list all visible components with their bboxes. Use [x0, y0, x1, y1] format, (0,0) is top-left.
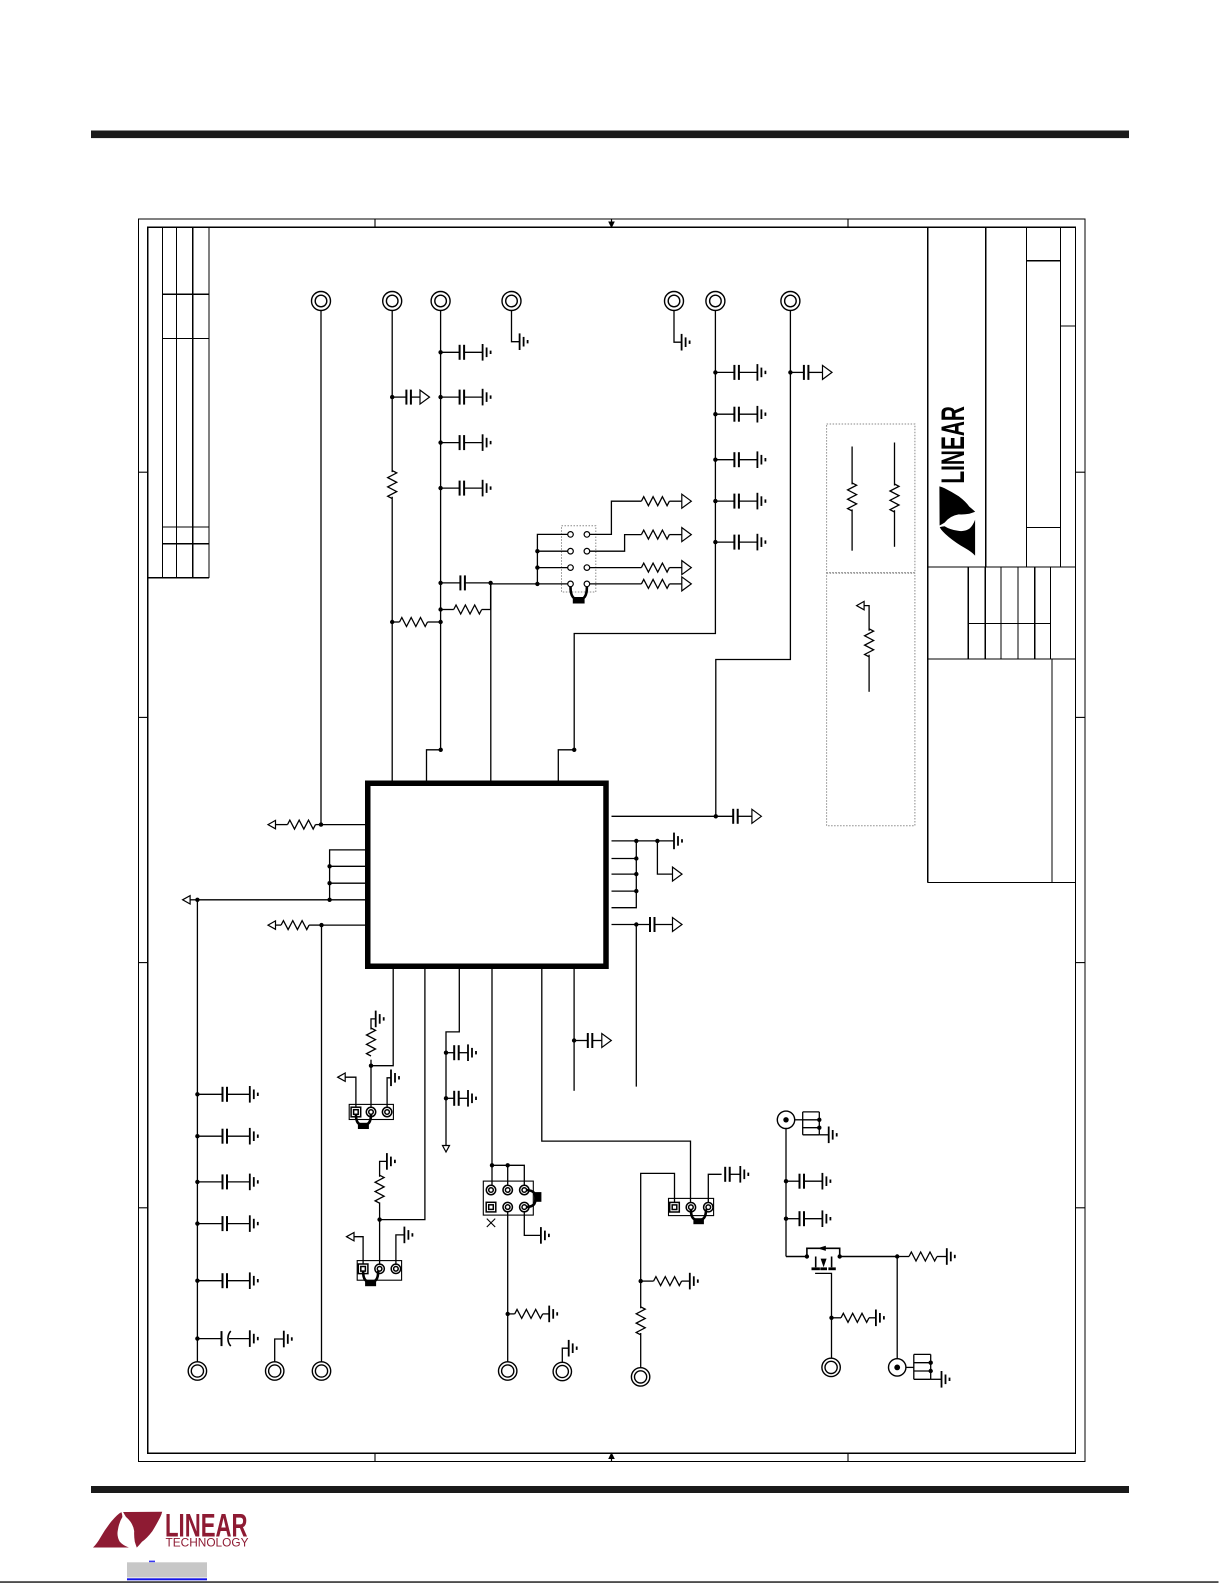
- node: [572, 1038, 576, 1042]
- capacitor C15 to ground: [446, 1052, 468, 1054]
- wire bus E3: [440, 311, 442, 750]
- resistor R10 to ground: [371, 1019, 376, 1066]
- node: [895, 1254, 899, 1258]
- capacitor C21 to ground: [197, 1181, 249, 1183]
- turret E10: [499, 1362, 517, 1380]
- net flag: [268, 921, 276, 929]
- frame tick bottom: [847, 1453, 849, 1461]
- wire JP1 left bus: [491, 534, 568, 584]
- node: [817, 1118, 821, 1122]
- shield stack J2: [914, 1354, 942, 1379]
- shield stack J1: [803, 1112, 829, 1135]
- capacitor C11 to ground: [715, 534, 765, 551]
- node: [535, 565, 539, 569]
- coax connector J1: [777, 1111, 794, 1128]
- wire drain down: [896, 1257, 898, 1359]
- wire bus E2: [391, 311, 393, 783]
- wire JP2 pin1 to flag: [345, 1077, 356, 1107]
- capacitor C19 to ground: [197, 1093, 249, 1095]
- wire J2 to shield: [906, 1366, 914, 1368]
- jumper header JP1 (2x4): [562, 526, 596, 592]
- ground: [876, 1310, 884, 1327]
- wire JP4 top feed: [492, 1165, 524, 1186]
- node: [195, 1180, 199, 1184]
- wire J1 to shield: [795, 1119, 803, 1121]
- node: [195, 1134, 199, 1138]
- frame tick bottom: [374, 1453, 376, 1461]
- resistor R16 to ground: [897, 1256, 947, 1258]
- node: [327, 881, 331, 885]
- frame center arrow bottom: [608, 1452, 615, 1461]
- node: [784, 1217, 788, 1221]
- turret E8: [188, 1362, 206, 1380]
- jumper block JP4 (2x3): [483, 1181, 533, 1215]
- capacitor C5 to ground: [441, 480, 491, 497]
- capacitor C24 polarized to ground: [197, 1338, 249, 1340]
- wire bus E6: [574, 311, 715, 750]
- node: [438, 486, 442, 490]
- resistor R4: [641, 497, 669, 506]
- footer Linear Technology logo: [93, 1508, 249, 1550]
- bottom black bar: [91, 1486, 1129, 1493]
- wire: [669, 583, 682, 585]
- node: [319, 923, 323, 927]
- node: [829, 1316, 833, 1320]
- net arrow: [682, 494, 692, 508]
- capacitor C18 with arrow: [574, 1040, 603, 1042]
- MOSFET Q1: [786, 1248, 897, 1267]
- wire to ground: [636, 840, 674, 842]
- no-connect X: [487, 1219, 495, 1227]
- wire JP1 row3 to R6: [590, 567, 642, 569]
- turret E12: [631, 1368, 649, 1386]
- frame tick top: [847, 219, 849, 227]
- resistor R6: [641, 563, 669, 572]
- node: [327, 864, 331, 868]
- node: [438, 620, 442, 624]
- wire U1 bottom pin x459: [446, 969, 459, 1145]
- net arrow: [682, 577, 692, 591]
- wire U1 bottom pin x542 to JP5: [542, 969, 691, 1203]
- resistor (option) in box2: [865, 629, 874, 657]
- wire bus E1 to U1: [320, 311, 322, 825]
- node: [929, 1369, 933, 1373]
- net arrow: [673, 867, 683, 881]
- wire U1 bottom pin x492 to JP4: [491, 969, 493, 1186]
- IC U1: [368, 783, 606, 966]
- wire: [441, 583, 491, 610]
- wire: [669, 567, 682, 569]
- node: [488, 581, 492, 585]
- node: [319, 822, 323, 826]
- jumper shunt JP2: [356, 1114, 371, 1125]
- schematic sheet frame: [139, 219, 1086, 1462]
- frame tick right: [1075, 962, 1085, 964]
- svg-text:LINEAR: LINEAR: [935, 406, 971, 484]
- node: [390, 620, 394, 624]
- top black bar: [91, 131, 1129, 139]
- dotted option box 1: [827, 424, 915, 573]
- capacitor C7 to ground: [715, 364, 765, 381]
- node: [784, 1179, 788, 1183]
- node: [195, 1092, 199, 1096]
- node: [444, 1096, 448, 1100]
- node: [506, 1163, 510, 1167]
- title block: [928, 227, 1076, 882]
- frame tick left: [139, 471, 148, 473]
- wire gate to turret: [831, 1318, 833, 1359]
- node: [195, 1279, 199, 1283]
- wire E13 to ground: [562, 1348, 568, 1362]
- resistor R3 between buses: [392, 621, 440, 623]
- wire U1 top pin VIN: [490, 583, 492, 781]
- node: [535, 582, 539, 586]
- turret E6: [706, 292, 725, 311]
- net arrow down: [443, 1146, 450, 1153]
- jumper strip JP2: [349, 1104, 393, 1119]
- jumper shunt JP3: [363, 1271, 378, 1282]
- wire JP1 row1 to R4: [590, 501, 642, 534]
- wire U1 top pin step to E3 bus: [427, 750, 441, 781]
- resistor R12 to ground: [508, 1313, 550, 1315]
- capacitor C22 to ground: [197, 1223, 249, 1225]
- capacitor C14 with arrow: [650, 917, 655, 932]
- wire U1 bottom pin x393: [371, 969, 393, 1066]
- wire to JP2 pin2: [370, 1066, 372, 1108]
- resistor R8: [276, 824, 322, 826]
- wire JP3 pin1 to flag: [354, 1237, 363, 1264]
- frame tick right: [1075, 716, 1085, 718]
- turret E7: [781, 292, 800, 311]
- title block Linear logo (rotated): [935, 406, 975, 556]
- svg-text:TECHNOLOGY: TECHNOLOGY: [166, 1535, 249, 1549]
- capacitor C23 to ground: [197, 1280, 249, 1282]
- wire U1 left pin group: [197, 850, 365, 900]
- node: [444, 1051, 448, 1055]
- node: [438, 350, 442, 354]
- wire to arrow: [657, 841, 673, 874]
- net flag arrow (option) in box2: [857, 601, 865, 609]
- node: [438, 395, 442, 399]
- frame tick left: [139, 716, 148, 718]
- footer redacted link: [127, 1562, 207, 1577]
- ground: [569, 1340, 577, 1357]
- ground: [541, 1227, 549, 1244]
- node: [639, 1279, 643, 1283]
- ground: [391, 1070, 399, 1087]
- resistor R5: [641, 530, 669, 539]
- node: [929, 1361, 933, 1365]
- wire: [669, 534, 682, 536]
- node: [634, 856, 638, 860]
- node: [634, 839, 638, 843]
- frame tick left: [139, 1207, 148, 1209]
- ground: [376, 1011, 384, 1028]
- wire bus E7: [716, 311, 791, 817]
- node: [195, 1336, 199, 1340]
- ground: [404, 1227, 412, 1244]
- node: [713, 370, 717, 374]
- node: [369, 1064, 373, 1068]
- capacitor C10 to ground: [715, 493, 765, 510]
- resistor R9: [276, 924, 322, 926]
- node: [713, 412, 717, 416]
- capacitor C4 to ground: [441, 434, 491, 451]
- node: [195, 1221, 199, 1225]
- ground: [387, 1153, 395, 1170]
- node: [439, 748, 443, 752]
- ground: [674, 833, 682, 850]
- ground: [947, 1248, 955, 1265]
- dotted option box 2: [827, 573, 915, 825]
- node: [634, 922, 638, 926]
- capacitor C8 to ground: [715, 406, 765, 423]
- node: [438, 607, 442, 611]
- net flag: [183, 896, 191, 904]
- wire U1 left pin y925: [322, 924, 366, 926]
- node: [714, 814, 718, 818]
- ground: [549, 1306, 557, 1323]
- resistor R1 inline on E2 bus: [388, 471, 397, 499]
- wire JP1 row4 to R7: [590, 583, 642, 585]
- turret E1: [312, 292, 331, 311]
- revision table (top left): [148, 227, 210, 578]
- wire JP4 bottom-mid to turret: [507, 1212, 509, 1362]
- node: [490, 1163, 494, 1167]
- wire JP5 pin1 path: [641, 1173, 675, 1281]
- node: [788, 370, 792, 374]
- turret E9: [266, 1362, 284, 1380]
- wire U1 right pin group: [612, 841, 637, 908]
- frame center arrow top: [608, 219, 615, 228]
- resistor (option) in box1: [894, 443, 896, 547]
- node: [506, 1312, 510, 1316]
- ground: [829, 1127, 837, 1144]
- wire: [190, 899, 197, 901]
- node on E2 bus: [390, 395, 394, 399]
- capacitor C9 to ground: [715, 451, 765, 468]
- jumper strip JP5: [669, 1198, 714, 1215]
- capacitor C20 to ground: [197, 1135, 249, 1137]
- resistor R13 to ground: [641, 1280, 690, 1282]
- node: [634, 872, 638, 876]
- wire U1 right pin y924: [612, 924, 651, 926]
- node: [195, 898, 199, 902]
- wire U1 left pin y824: [321, 824, 365, 826]
- wire U1 top pin step: [558, 750, 574, 781]
- resistor R14 series: [640, 1281, 642, 1368]
- turret E2: [383, 292, 402, 311]
- frame tick right: [1075, 471, 1085, 473]
- wire E5 to ground: [674, 311, 682, 343]
- turret E5: [665, 292, 684, 311]
- wire: [669, 500, 682, 502]
- ground: [942, 1371, 950, 1388]
- capacitor C12 with arrow: [790, 371, 823, 373]
- net flag: [338, 1073, 346, 1081]
- capacitor C13 with arrow: [733, 809, 738, 824]
- net flag: [268, 820, 276, 828]
- wire stub down from node: [635, 925, 637, 1087]
- wire E11 bus: [321, 925, 323, 1362]
- node: [572, 748, 576, 752]
- wire: [864, 606, 869, 692]
- node: [817, 1126, 821, 1130]
- wire E9 to ground: [275, 1339, 284, 1362]
- coax connector J2: [889, 1359, 906, 1376]
- ground: [520, 333, 528, 350]
- node: [377, 1217, 381, 1221]
- wire Q1 gate: [815, 1273, 831, 1317]
- node: [655, 839, 659, 843]
- node: [438, 581, 442, 585]
- bottom hairline: [0, 1581, 1219, 1583]
- frame tick left: [139, 962, 148, 964]
- wire U1 right pin y816: [612, 815, 734, 817]
- turret E4: [502, 292, 521, 311]
- net flag: [347, 1233, 355, 1241]
- turret E11: [312, 1362, 330, 1380]
- frame tick right: [1075, 1207, 1085, 1209]
- wire to JP3 pin2: [379, 1220, 381, 1265]
- turret E14: [822, 1358, 840, 1376]
- net arrow: [682, 528, 692, 542]
- capacitor C26 to ground: [786, 1218, 822, 1220]
- wire U1 bottom pin x425: [380, 969, 425, 1220]
- node: [634, 889, 638, 893]
- resistor (option) in box1: [851, 447, 853, 551]
- node: [713, 540, 717, 544]
- wire JP4 bottom-right to ground: [524, 1212, 541, 1236]
- capacitor C25 to ground: [786, 1180, 822, 1182]
- resistor R15 to ground: [832, 1317, 876, 1319]
- node: [713, 499, 717, 503]
- wire U1 bottom pin x574 stub: [573, 969, 575, 1091]
- capacitor C1 with arrow: [392, 396, 420, 398]
- capacitor C16 to ground: [446, 1097, 468, 1099]
- net arrow: [682, 561, 692, 575]
- turret E3: [431, 292, 450, 311]
- node: [327, 898, 331, 902]
- jumper shunt JP4: [527, 1190, 536, 1207]
- left output cap bank bus: [196, 900, 198, 1362]
- capacitor C17 to ground: [725, 1167, 730, 1182]
- wire JP1 row2 to R5: [590, 535, 642, 552]
- frame tick top: [374, 219, 376, 227]
- wire JP3 pin3 to ground: [396, 1235, 405, 1264]
- capacitor C3 to ground: [441, 389, 491, 406]
- wire JP2 pin3 to ground: [387, 1078, 391, 1107]
- wire E4 to ground: [512, 311, 520, 342]
- resistor R2 feedback: [454, 605, 482, 614]
- jumper shunt on JP1 row4: [571, 587, 587, 600]
- ground: [284, 1331, 292, 1348]
- wire J1 center down: [785, 1129, 787, 1257]
- ground: [682, 334, 690, 351]
- capacitor C6 series: [441, 582, 491, 584]
- node: [713, 458, 717, 462]
- capacitor C2 to ground: [441, 344, 491, 361]
- ground: [690, 1273, 698, 1290]
- node: [438, 440, 442, 444]
- turret E13: [553, 1362, 571, 1380]
- jumper strip JP3: [357, 1261, 401, 1281]
- jumper shunt JP5: [691, 1209, 706, 1220]
- node: [535, 549, 539, 553]
- resistor R7: [641, 579, 669, 588]
- resistor R11 to ground: [380, 1161, 387, 1219]
- wire JP5 pin3 to C17: [708, 1174, 721, 1202]
